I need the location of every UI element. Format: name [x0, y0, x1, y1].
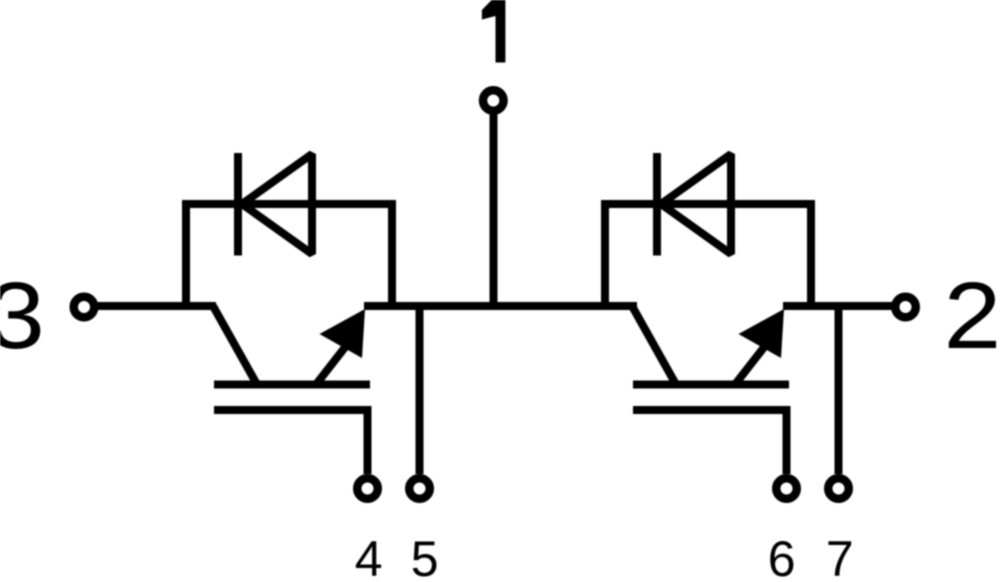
- diode D1 triangle: [242, 154, 312, 254]
- diode D2 right leg wire: [807, 204, 815, 306]
- transistor Q1 body bar: [214, 381, 370, 389]
- wire: center rail: [364, 302, 637, 310]
- terminal 1 label: [482, 0, 506, 63]
- transistor Q1 gate lead: [214, 410, 368, 474]
- svg-text:4: 4: [355, 531, 383, 582]
- diode D2 cathode bar: [653, 153, 661, 256]
- terminal 5 wire: [416, 306, 424, 474]
- wire: terminal 3 to Q1 collector (left rail): [98, 302, 216, 310]
- terminal 6 circle: [776, 478, 797, 499]
- transistor Q1 emitter arrowhead: [320, 309, 366, 358]
- transistor Q2 collector slant: [632, 306, 676, 385]
- transistor Q2 emitter shaft: [735, 346, 765, 385]
- terminal 5 circle: [409, 478, 430, 499]
- transistor Q1 emitter shaft: [316, 346, 346, 385]
- transistor Q2 gate lead: [633, 410, 787, 474]
- diode D2 top wire: [601, 200, 815, 208]
- svg-text:7: 7: [826, 531, 854, 582]
- svg-text:5: 5: [411, 531, 439, 582]
- terminal 4 circle: [357, 478, 378, 499]
- transistor Q2 emitter arrowhead: [739, 309, 785, 358]
- transistor Q1 collector slant: [213, 306, 257, 385]
- diode D1 left leg wire: [182, 204, 190, 306]
- transistor Q2 body bar: [633, 381, 789, 389]
- wire: right rail to terminal 2: [783, 302, 892, 310]
- diode D1 top wire: [182, 200, 396, 208]
- terminal 7 wire: [835, 306, 843, 474]
- diode D1 right leg wire: [388, 204, 396, 306]
- terminal 7 circle: [828, 478, 849, 499]
- terminal 1 circle: [483, 90, 504, 111]
- svg-text:2: 2: [944, 263, 1000, 369]
- terminal 3 circle: [74, 297, 95, 318]
- diode D1 cathode bar: [234, 153, 242, 256]
- wire: terminal 1 to center rail: [490, 115, 498, 307]
- svg-text:3: 3: [0, 263, 45, 369]
- svg-text:6: 6: [768, 531, 796, 582]
- diode D2 left leg wire: [601, 204, 609, 306]
- terminal 2 circle: [895, 297, 916, 318]
- diode D2 triangle: [661, 154, 731, 254]
